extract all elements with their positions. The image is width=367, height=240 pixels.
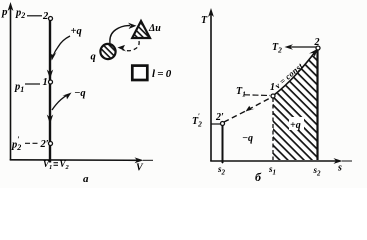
curve v=const from 1 to 2 — [274, 52, 315, 95]
svg-text:2′: 2′ — [215, 112, 224, 123]
T1 leader (dashed) — [244, 94, 270, 97]
dashed return arrow Δu to q — [123, 41, 140, 51]
svg-text:s: s — [337, 163, 342, 174]
direction arrowhead on segment 1-2' — [47, 115, 53, 125]
axis V (horizontal) — [10, 159, 138, 162]
svg-text:p: p — [1, 6, 8, 18]
s2' ordinate — [222, 126, 224, 164]
svg-text:T2′: T2′ — [192, 112, 202, 129]
node 1 (open circle) — [49, 80, 53, 84]
svg-text:−q: −q — [242, 133, 253, 144]
+q arrow into line — [54, 36, 71, 55]
direction arrowhead on segment 2-1 — [47, 70, 53, 80]
node 2' (open circle) — [49, 142, 53, 146]
dashed curve 2' to 1 — [224, 98, 271, 123]
svg-text:2: 2 — [314, 37, 320, 48]
leader dash p2 to 2 — [27, 15, 42, 17]
axis p (vertical) — [10, 8, 12, 160]
svg-text:s1: s1 — [268, 164, 276, 177]
heat source circle q (hatched) — [100, 44, 115, 59]
svg-text:+q: +q — [71, 26, 82, 37]
T2 leader with left arrow — [288, 46, 316, 48]
node 2 — [316, 46, 320, 50]
axis V tail — [143, 159, 153, 161]
node 1 — [271, 94, 275, 98]
axis s (horizontal) — [210, 160, 337, 162]
axis s tail — [342, 160, 352, 162]
svg-text:T1: T1 — [236, 86, 246, 99]
axis V arrowhead — [135, 157, 144, 163]
svg-text:a: a — [83, 173, 89, 185]
svg-text:l = 0: l = 0 — [152, 68, 172, 80]
svg-text:V: V — [136, 163, 144, 174]
solid arrow q to Δu — [110, 26, 130, 44]
svg-text:T: T — [201, 15, 208, 26]
s2 ordinate (solid) — [316, 50, 318, 160]
leader dash p1 to 1 — [25, 83, 40, 85]
svg-text:q: q — [91, 52, 96, 63]
triangle Δu (hatched) — [132, 21, 150, 38]
svg-text:s2′: s2′ — [217, 161, 226, 177]
svg-text:2: 2 — [42, 11, 49, 22]
arrowhead on dashed curve (toward 2') — [246, 106, 255, 112]
axis T (vertical) — [210, 14, 212, 161]
-q arrow out of line — [52, 95, 68, 111]
axis p arrowhead — [8, 2, 14, 11]
svg-text:p1: p1 — [14, 82, 24, 95]
axis s arrowhead — [334, 158, 343, 164]
svg-text:+q: +q — [290, 120, 301, 131]
leader dashes p2' to 2' — [25, 142, 39, 144]
svg-text:p2: p2 — [15, 8, 25, 21]
label +q (on white patch) — [289, 117, 304, 130]
svg-text:1: 1 — [43, 77, 48, 88]
node 2 (open circle) — [49, 17, 53, 21]
svg-text:Δu: Δu — [148, 23, 161, 34]
svg-text:2′: 2′ — [40, 139, 49, 150]
work square l=0 — [132, 66, 147, 80]
s1 ordinate (dashed) — [272, 98, 274, 160]
arrowhead on curve near 2 — [309, 49, 318, 57]
svg-text:−q: −q — [74, 88, 86, 99]
svg-text:s2: s2 — [313, 165, 322, 178]
svg-text:б: б — [255, 170, 262, 184]
svg-text:p2′: p2′ — [11, 135, 21, 152]
svg-text:T2: T2 — [272, 42, 282, 55]
hatched +q area under curve 1-2 — [273, 50, 318, 161]
axis T arrowhead — [208, 8, 214, 17]
T2' level connector — [211, 123, 221, 125]
node 2' — [221, 122, 225, 126]
process line 2-1-2' (isochore) — [49, 18, 51, 163]
svg-text:1: 1 — [270, 82, 275, 93]
